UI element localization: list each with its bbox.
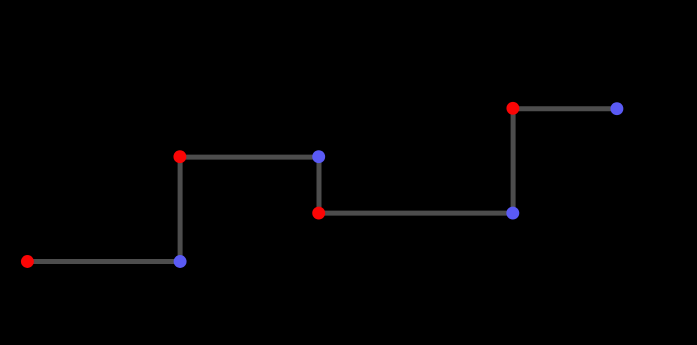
node 1 (red): [21, 255, 34, 268]
wire segment 5 (horizontal): [319, 211, 513, 216]
node 8 (blue): [610, 102, 623, 115]
wire segment 1 (horizontal): [27, 259, 180, 264]
node 4 (blue): [312, 150, 325, 163]
node 3 (red): [173, 150, 186, 163]
node 5 (red): [312, 207, 325, 220]
wire segment 2 (vertical): [178, 157, 183, 262]
wire segment 7 (horizontal): [513, 106, 617, 111]
node 6 (blue): [506, 207, 519, 220]
node 7 (red): [506, 102, 519, 115]
node 2 (blue): [174, 255, 187, 268]
wire segment 4 (vertical): [317, 157, 322, 213]
wire segment 3 (horizontal): [180, 155, 319, 160]
wire segment 6 (vertical): [511, 109, 516, 213]
